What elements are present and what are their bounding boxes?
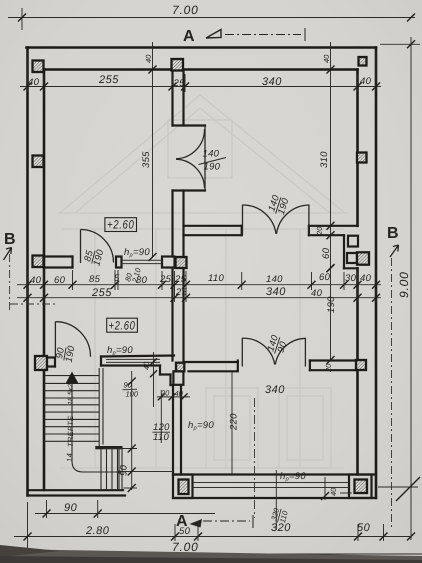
svg-text:14: 14	[65, 453, 74, 462]
svg-text:60: 60	[319, 272, 331, 283]
svg-text:18,5x26: 18,5x26	[68, 379, 75, 405]
stairs up arrow	[66, 372, 79, 384]
middle wall right segment (y 225.8/235.2)	[184, 225, 242, 227]
bottom wall SE with window	[173, 473, 376, 475]
svg-text:85: 85	[89, 274, 101, 285]
stairwell vertical ticks	[128, 445, 136, 453]
door D1 double-swing in center wall	[204, 126, 206, 191]
svg-text:30: 30	[345, 273, 357, 284]
chimney small squares	[348, 236, 358, 247]
svg-text:110: 110	[153, 432, 169, 443]
svg-text:hp=90: hp=90	[188, 420, 214, 432]
svg-text:B: B	[387, 225, 399, 242]
STAIRS	[44, 368, 122, 490]
fraction 120/110	[153, 422, 171, 443]
svg-text:2.80: 2.80	[85, 525, 110, 537]
center vertical wall upper (between top rooms)	[171, 70, 173, 126]
door fraction 140/190 (D2)	[266, 193, 292, 217]
door fraction 140/190 (D1)	[199, 149, 227, 173]
bottom wall SW (thin)	[28, 489, 123, 491]
right 9.00 dim vertical	[410, 37, 412, 540]
svg-text:90: 90	[124, 381, 133, 390]
lower wall left: window segment	[101, 356, 174, 357]
middle wall left: window cap box	[116, 257, 122, 268]
door D3 single 85 in middle wall left	[80, 230, 82, 264]
bottom wall 40 tick	[321, 492, 329, 500]
svg-text:hp=90: hp=90	[107, 345, 133, 357]
center vertical wall lower	[171, 268, 173, 361]
window in lower-left wall	[106, 358, 160, 360]
right wall inner lower	[356, 268, 359, 474]
svg-text:100: 100	[126, 390, 139, 399]
svg-text:40: 40	[322, 54, 331, 63]
svg-text:340: 340	[262, 76, 282, 88]
dim ext x=157 (20 / 120-110)	[153, 352, 155, 407]
svg-text:B: B	[4, 231, 16, 248]
svg-text:190: 190	[204, 162, 221, 173]
top wall inner	[44, 68, 358, 71]
svg-text:40: 40	[360, 76, 372, 87]
svg-text:25: 25	[173, 78, 186, 89]
svg-text:40: 40	[311, 288, 323, 299]
svg-text:TREPTE: TREPTE	[66, 415, 75, 447]
svg-text:60: 60	[321, 247, 332, 259]
svg-text:5: 5	[114, 273, 120, 284]
svg-text:255: 255	[98, 74, 119, 86]
svg-text:355: 355	[141, 151, 152, 168]
ext line x=152.5 with 40/355	[152, 42, 154, 257]
ext line x=331 with 40/310/20/60/190	[330, 42, 332, 360]
right wall inner upper	[356, 70, 359, 226]
svg-text:220: 220	[229, 413, 240, 431]
center vertical wall mid	[171, 191, 173, 257]
svg-text:9.00: 9.00	[397, 271, 411, 298]
bottom wall 40 ext	[324, 477, 326, 500]
svg-text:7.00: 7.00	[172, 3, 199, 17]
door jamb caps of double-swing door D1	[173, 124, 206, 126]
top 7.00 dim line	[8, 17, 415, 19]
door fraction 140/90 (D5)	[265, 333, 291, 357]
svg-text:310: 310	[319, 151, 330, 168]
svg-text:90: 90	[64, 502, 78, 514]
svg-text:190: 190	[326, 296, 337, 313]
right wall outer	[375, 48, 378, 499]
mid dim line2 ticks	[24, 294, 32, 302]
svg-text:25: 25	[175, 287, 188, 298]
mid dim line 1	[17, 284, 381, 286]
svg-text:20: 20	[315, 226, 324, 236]
svg-text:A: A	[183, 28, 195, 45]
lower wall right segments	[184, 361, 238, 363]
top wall dim line 40|255|25|340|40	[20, 86, 381, 88]
bottom dim ticks	[24, 533, 32, 541]
entrance floor line	[124, 471, 174, 473]
svg-text:25: 25	[159, 274, 172, 285]
column left wall lower	[35, 356, 47, 370]
320/110 ext vertical	[275, 470, 277, 530]
window in middle-left wall	[122, 259, 163, 261]
column center wall lower	[176, 363, 184, 372]
wall step at hall SE corner	[159, 366, 161, 375]
mid dim line1 ticks	[24, 281, 32, 289]
center wall bottom part (left wall of SE room)	[172, 385, 174, 475]
bottom wall end boxes	[173, 475, 193, 499]
column SE room SW corner	[179, 480, 189, 495]
svg-text:340: 340	[266, 286, 286, 298]
open shaft box below column	[173, 371, 183, 385]
left wall outer	[26, 48, 29, 496]
svg-text:hp=90: hp=90	[280, 471, 306, 483]
svg-text:20: 20	[324, 363, 333, 373]
bottom 7.00 line	[12, 553, 422, 555]
column right wall lower	[356, 360, 366, 370]
door D2 french doors in middle wall right	[242, 205, 244, 236]
column right wall mid (chimney)	[357, 252, 369, 264]
thin wall lines: entrance threshold + windows	[106, 260, 349, 487]
door fraction 85/190 (D3)	[82, 245, 107, 267]
svg-text:90: 90	[119, 464, 130, 476]
right 9.00 ticks	[407, 40, 415, 48]
lower wall left: cap at door	[44, 356, 55, 358]
svg-text:40: 40	[30, 275, 42, 286]
svg-text:40: 40	[142, 361, 151, 370]
mid dim line 2	[17, 297, 381, 299]
svg-text:A: A	[176, 513, 188, 530]
column right wall upper	[357, 153, 367, 163]
svg-text:320: 320	[271, 522, 291, 534]
left wall inner	[43, 70, 46, 491]
svg-text:140: 140	[203, 149, 220, 160]
svg-text:7.00: 7.00	[172, 540, 199, 554]
220 dim vertical in SE room	[231, 372, 233, 474]
COLUMNS (hatched)	[33, 57, 370, 494]
treads upper flight	[44, 375, 99, 377]
svg-text:hp=90: hp=90	[124, 247, 150, 259]
svg-text:140: 140	[266, 274, 283, 285]
svg-text:20: 20	[160, 389, 170, 398]
walk line	[72, 377, 119, 472]
interior walls	[28, 70, 377, 499]
svg-text:40: 40	[28, 77, 40, 88]
column center wall mid	[176, 257, 187, 268]
column left wall upper-mid	[33, 156, 44, 168]
svg-text:110: 110	[208, 273, 224, 284]
svg-text:+2.60: +2.60	[107, 218, 135, 232]
middle wall left segment at hall	[44, 255, 73, 257]
treads lower flight (vertical)	[100, 449, 102, 490]
column left wall top	[33, 61, 44, 73]
landing edge	[95, 446, 122, 449]
wall jog around chimney cluster	[343, 235, 345, 268]
fraction 320/110 rotated	[269, 506, 290, 525]
svg-text:60: 60	[54, 275, 66, 286]
svg-text:255: 255	[91, 287, 112, 299]
fraction 90/100 rotated	[123, 381, 139, 399]
svg-text:+2.60: +2.60	[109, 319, 136, 333]
DOORS	[55, 126, 309, 367]
svg-text:40: 40	[329, 487, 338, 496]
svg-text:40: 40	[144, 54, 153, 63]
svg-text:40: 40	[175, 389, 184, 398]
svg-text:40: 40	[360, 273, 372, 284]
mid band extension verticals	[27, 270, 29, 302]
door D5 french doors in lower wall right	[241, 338, 243, 367]
bottom main dim line	[14, 536, 410, 538]
column left wall mid	[33, 256, 44, 268]
top wall outer	[27, 46, 377, 49]
svg-text:340: 340	[265, 384, 285, 396]
svg-text:25: 25	[174, 274, 187, 285]
+2.60 boxes	[105, 218, 137, 333]
column right wall top	[359, 57, 367, 66]
photo bottom edge shadow	[0, 549, 422, 563]
ghost elevation bleed-through	[58, 95, 348, 468]
stairwell dim vertical x=131.7	[131, 371, 133, 490]
door D4 single 90 in lower-left wall	[54, 322, 56, 357]
lower flight right edge	[118, 446, 120, 490]
svg-text:50: 50	[357, 522, 371, 534]
column SE room SE corner	[355, 480, 368, 494]
door fraction 90/190 (D4)	[54, 343, 78, 364]
stairwell right wall line	[98, 368, 100, 446]
bottom 90 stair dim	[35, 513, 215, 515]
WALLS	[27, 48, 377, 499]
column center wall top	[172, 59, 184, 71]
stair dim ticks	[43, 510, 51, 518]
window in bottom wall	[193, 482, 350, 484]
